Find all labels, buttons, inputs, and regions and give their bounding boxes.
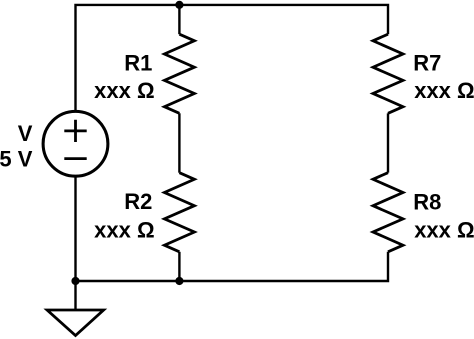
svg-text:5 V: 5 V	[0, 147, 33, 172]
wire: R1 top lead from top-rail junction	[178, 5, 180, 34]
wire: between R1 and R2	[178, 113, 180, 172]
svg-text:xxx Ω: xxx Ω	[94, 218, 154, 243]
ground symbol	[47, 310, 104, 336]
resistor R8	[373, 173, 403, 252]
junction node: bottom rail / ground	[71, 277, 79, 285]
svg-text:R7: R7	[413, 50, 441, 75]
svg-text:R2: R2	[124, 189, 152, 214]
wire: top rail with left branch upper lead and right branch top lead	[76, 5, 389, 111]
wire: between R7 and R8	[387, 113, 389, 172]
wire: R2 bottom lead to bottom rail	[178, 252, 180, 281]
svg-text:V: V	[18, 121, 33, 146]
svg-text:R1: R1	[124, 51, 152, 76]
resistor R7	[373, 34, 403, 113]
svg-text:xxx Ω: xxx Ω	[414, 78, 474, 103]
wire: bottom rail with right branch lower lead	[76, 252, 389, 281]
svg-text:R8: R8	[413, 189, 441, 214]
svg-text:xxx Ω: xxx Ω	[94, 78, 154, 103]
svg-text:xxx Ω: xxx Ω	[414, 218, 474, 243]
voltage source V1 circle	[43, 111, 108, 176]
resistor R2	[164, 173, 194, 252]
resistor R1	[164, 34, 194, 113]
voltage source plus sign	[64, 120, 86, 142]
wire: source bottom lead to bottom rail and ground	[74, 177, 76, 311]
voltage source minus sign	[64, 157, 86, 160]
junction node: bottom rail / R2	[175, 277, 183, 285]
junction node: top rail / R1	[175, 1, 183, 9]
